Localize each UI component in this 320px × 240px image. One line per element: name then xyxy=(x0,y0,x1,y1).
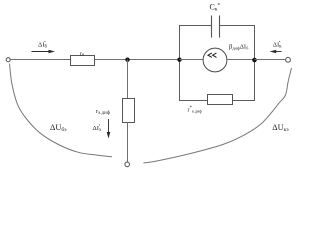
top branch wire right xyxy=(220,25,256,27)
wire collector node to terminal xyxy=(255,59,286,61)
top branch wire left xyxy=(179,25,212,27)
dot above I (delta-I-k) xyxy=(279,41,280,42)
middle branch wire right xyxy=(227,59,255,61)
voltage arc delta-U-ke xyxy=(143,68,291,163)
svg-text:rэ.диф: rэ.диф xyxy=(96,109,110,116)
terminal emitter (bottom) xyxy=(125,162,130,167)
resistor rb xyxy=(71,56,95,66)
wire base input to resistor rb xyxy=(10,59,70,61)
svg-text:rб: rб xyxy=(80,50,85,57)
wire rb to node B' xyxy=(95,59,180,61)
current source circle xyxy=(203,48,227,72)
voltage arc delta-U-be xyxy=(10,64,113,157)
middle branch wire left xyxy=(180,59,204,61)
resistor rk.dif* xyxy=(208,95,233,105)
dot above I (delta-I-e) xyxy=(99,124,100,125)
bottom branch wire right xyxy=(233,100,256,102)
current arrow delta-I-b (right) xyxy=(32,50,56,54)
capacitor Ck* xyxy=(212,16,220,38)
svg-text:βдифΔIб: βдифΔIб xyxy=(229,44,249,51)
right bus of collector network xyxy=(254,25,256,101)
bottom branch wire left xyxy=(179,100,208,102)
junction node collector (right bus) xyxy=(252,58,257,63)
left bus of collector network xyxy=(179,25,181,101)
current arrow delta-I-e (down) xyxy=(107,119,111,139)
junction node (left bus / middle branch) xyxy=(177,58,181,62)
current source arrows << xyxy=(208,53,216,57)
wire node B' down to re.dif xyxy=(127,60,129,100)
current arrow delta-I-k (left) xyxy=(270,50,282,54)
terminal collector (right) xyxy=(286,57,291,62)
terminal base (left input) xyxy=(6,58,10,62)
resistor re.dif (vertical) xyxy=(123,99,135,123)
dot above I (delta-I-b) xyxy=(44,41,45,42)
junction node B' xyxy=(125,58,129,62)
wire re.dif down to emitter terminal xyxy=(127,123,129,163)
